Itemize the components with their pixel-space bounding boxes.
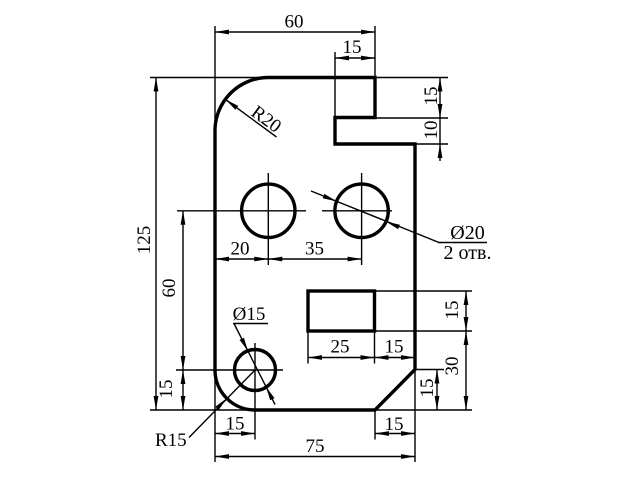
dimension 15 (top notch) [335, 52, 375, 118]
dimension 60 (top) [215, 26, 375, 131]
svg-text:15: 15 [442, 301, 463, 320]
svg-text:2 отв.: 2 отв. [444, 242, 492, 264]
svg-text:35: 35 [305, 239, 324, 260]
svg-text:15: 15 [343, 37, 362, 58]
svg-text:10: 10 [421, 121, 442, 140]
svg-text:Ø20: Ø20 [450, 222, 484, 244]
hole 1 (left Ø20) [242, 184, 295, 237]
dimension 15 (cutout height, right chain) [375, 291, 473, 331]
dimension 75 (overall width, bottom) [215, 456, 415, 458]
svg-text:30: 30 [442, 357, 463, 376]
dimension 25 (cutout width) [308, 331, 375, 364]
svg-text:125: 125 [134, 226, 155, 255]
dimension 30 (cutout bottom to plate bottom) [375, 331, 472, 410]
dimension 15 (cutout to right edge) [375, 357, 416, 359]
svg-text:20: 20 [231, 239, 250, 260]
dimension 10 (notch step, right) [415, 118, 448, 161]
svg-text:15: 15 [421, 87, 442, 106]
svg-text:15: 15 [226, 414, 245, 435]
hole 3 (Ø15) [235, 350, 276, 391]
hole 2 (right Ø20) [335, 184, 388, 237]
diameter callout Ø15 [233, 324, 275, 405]
svg-text:75: 75 [306, 436, 325, 457]
svg-text:60: 60 [159, 279, 180, 298]
centerlines hole 1 [177, 173, 306, 265]
plate outline [215, 78, 415, 411]
centerlines hole 2 [322, 173, 392, 265]
dimension 15 (left chain bottom) [182, 370, 184, 410]
dimension 125 (overall height) [150, 78, 268, 411]
svg-text:R15: R15 [155, 430, 187, 451]
dimension 15 (notch depth, right) [375, 78, 448, 119]
centerlines hole 3 [176, 343, 283, 440]
dimension 15 (hole 3 from left edge, bottom) [215, 370, 255, 462]
svg-text:15: 15 [156, 380, 177, 399]
dimension 15 (chamfer width, bottom) [375, 370, 415, 463]
dimension 60 (left chain) [182, 211, 184, 370]
svg-text:15: 15 [385, 337, 404, 358]
svg-text:Ø15: Ø15 [233, 304, 266, 325]
radius callout R15 [189, 370, 255, 438]
rectangular cutout [308, 291, 375, 331]
dimension 35 (between holes) [268, 258, 361, 260]
dimension 20 (hole 1 from left edge) [215, 258, 268, 260]
svg-text:60: 60 [285, 12, 304, 33]
radius callout R20 [226, 100, 277, 138]
dimension 15 (chamfer height) [415, 370, 444, 411]
svg-text:25: 25 [331, 337, 350, 358]
svg-text:15: 15 [385, 414, 404, 435]
diameter callout Ø20, 2 holes [311, 191, 487, 243]
svg-text:15: 15 [417, 379, 438, 398]
